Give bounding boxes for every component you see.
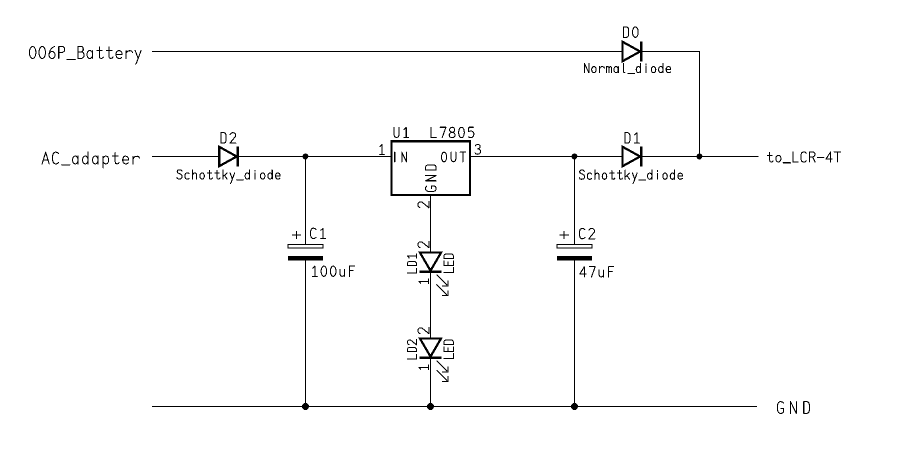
label LD2 rotated — [407, 340, 416, 359]
pin number 2 of LD1 rotated — [418, 241, 429, 247]
label U1 — [394, 127, 409, 137]
wire node to C1 top — [305, 157, 307, 245]
junction output node — [697, 154, 703, 160]
LED LD1 — [419, 253, 448, 296]
net label GND — [778, 402, 810, 414]
pin number 3 of U1 — [475, 144, 481, 154]
wire U1 pin 2 down to LED LD1 — [430, 195, 432, 252]
wire ground rail — [152, 406, 757, 408]
junction node at C2 tap — [572, 154, 578, 160]
wire D0 cathode to corner — [641, 51, 699, 53]
plus sign of C2 — [560, 231, 569, 238]
LED LD2 — [419, 338, 448, 381]
pin number 1 of LD1 rotated — [419, 279, 429, 284]
pin number 2 of LD2 rotated — [418, 327, 429, 333]
junction node at C1 tap — [303, 154, 309, 160]
capacitor C1 — [288, 245, 323, 261]
pin number 2 of U1 rotated — [418, 201, 429, 207]
label L7805 — [431, 127, 474, 137]
wire battery horizontal — [152, 51, 622, 53]
pin label GND rotated — [426, 165, 437, 192]
wire C2 bottom to ground rail — [574, 261, 576, 407]
wire node to C2 top — [574, 157, 576, 245]
junction LED on ground rail — [427, 403, 434, 410]
label D2 — [221, 133, 236, 144]
wire U1 OUT to D1 — [470, 156, 623, 158]
wire corner down to output node — [699, 51, 701, 157]
pin label IN — [395, 152, 407, 162]
wire C1 bottom to ground rail — [305, 261, 307, 407]
diode D1 — [623, 146, 642, 166]
label LD1 rotated — [407, 254, 416, 273]
capacitor C2 — [557, 245, 592, 261]
net label to_LCR-4T — [767, 152, 840, 163]
wire LD2 to ground rail — [430, 359, 432, 407]
label 100uF — [313, 266, 355, 276]
label LED of LD2 rotated — [444, 340, 454, 359]
label LED of LD1 rotated — [444, 254, 454, 273]
plus sign of C1 — [292, 231, 301, 238]
diode D0 — [623, 41, 642, 61]
label Normal_diode — [584, 63, 670, 73]
pin number 1 of U1 — [380, 145, 385, 155]
wire LD1 to LD2 — [430, 273, 432, 339]
diode D2 — [219, 146, 238, 166]
net label 006P_Battery — [29, 47, 141, 65]
label C1 — [311, 228, 326, 238]
regulator U1 box — [392, 141, 470, 195]
junction C2 on ground rail — [571, 403, 578, 410]
pin number 1 of LD2 rotated — [419, 365, 429, 370]
label Schottky_diode of D2 — [177, 170, 280, 184]
wire D2 to U1 pin 1 — [238, 156, 391, 158]
label Schottky_diode of D1 — [579, 170, 682, 184]
net label AC_adapter — [42, 152, 139, 168]
pin label OUT — [441, 152, 465, 162]
wire D1 cathode to output node — [641, 156, 758, 158]
label 47uF — [580, 267, 614, 277]
label D1 — [625, 133, 640, 144]
junction C1 on ground rail — [302, 403, 309, 410]
label C2 — [580, 228, 595, 238]
wire AC_adapter to D2 — [152, 156, 219, 158]
label D0 — [624, 27, 639, 38]
